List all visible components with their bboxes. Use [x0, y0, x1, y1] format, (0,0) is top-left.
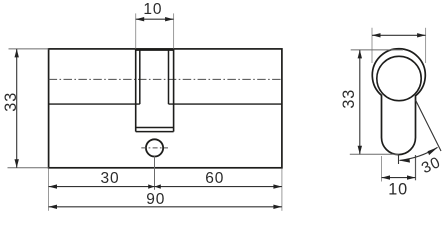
profile inner circle: [377, 56, 421, 100]
arrow top of profile 33: [358, 50, 362, 59]
cam slot top cap: [136, 49, 174, 51]
profile silhouette outline: [372, 49, 425, 155]
arrow left of profile 10: [382, 175, 391, 179]
arrow middle pointing right: [148, 184, 154, 188]
extension line bottom of dim 33: [8, 167, 49, 169]
dimension line 30/60: [49, 186, 282, 188]
dimension line 33: [16, 49, 18, 168]
extension line bottom of profile 33: [350, 153, 399, 155]
arrow right of dim 10: [165, 17, 174, 21]
arrow bottom of dim 33: [15, 159, 19, 168]
extension line top of profile 33: [351, 49, 403, 51]
cam plate bottom edge: [136, 131, 174, 133]
angle vertex tick: [398, 155, 400, 164]
extension line middle (screw axis): [154, 156, 156, 190]
extension line left of profile 10: [381, 156, 383, 182]
arrow left of dim 10: [136, 17, 145, 21]
angle arc: [400, 147, 438, 160]
arrow left end of 90: [49, 205, 58, 209]
axis centerline: [49, 78, 282, 80]
barrel bottom line right segment: [169, 103, 282, 105]
cam slot inner right wall: [168, 50, 170, 104]
cylinder body outline: [49, 49, 282, 168]
cam slot inner left wall: [139, 50, 141, 104]
extension line bottom right: [281, 169, 283, 211]
cam slot outer left wall: [135, 50, 137, 132]
arrow right of profile 10: [407, 175, 416, 179]
screw hole centerline: [141, 147, 168, 149]
extension line left of dim 10: [135, 13, 137, 48]
cam slot outer right wall: [173, 50, 175, 132]
arrow right of diameter: [417, 33, 426, 37]
arrow right end of 90: [273, 205, 282, 209]
dimension line profile 10: [382, 177, 416, 179]
dimension line profile 33: [359, 50, 361, 154]
svg-text:30: 30: [100, 170, 119, 187]
angle leader line: [416, 100, 442, 151]
arrow at arc right end: [428, 147, 438, 155]
extension line right of profile 10: [415, 155, 417, 180]
cam plate top edge: [136, 127, 174, 129]
extension line right of diameter: [425, 28, 427, 63]
arrow right end of 60: [273, 184, 282, 188]
extension line right of dim 10: [173, 13, 175, 48]
dimension line 10: [136, 18, 174, 20]
svg-text:90: 90: [146, 191, 165, 208]
arrow top of dim 33: [15, 49, 19, 58]
arrow middle pointing left: [155, 184, 161, 188]
svg-text:33: 33: [2, 92, 20, 112]
dimension line diameter: [372, 34, 426, 36]
svg-text:30: 30: [419, 154, 443, 177]
svg-text:10: 10: [388, 181, 408, 199]
arrow left of diameter: [372, 33, 381, 37]
svg-text:33: 33: [340, 89, 358, 109]
fixing screw hole: [146, 139, 163, 156]
extension line bottom left: [48, 169, 50, 211]
barrel bottom line left segment: [49, 103, 140, 105]
svg-text:10: 10: [143, 1, 162, 18]
arrow left end of 30: [49, 184, 58, 188]
extension line top of dim 33: [9, 48, 49, 50]
arrow bottom of profile 33: [358, 146, 362, 155]
arrow at arc left end: [399, 158, 410, 162]
extension line left of diameter: [371, 28, 373, 63]
svg-text:60: 60: [205, 170, 224, 187]
dimension line 90: [49, 206, 282, 208]
